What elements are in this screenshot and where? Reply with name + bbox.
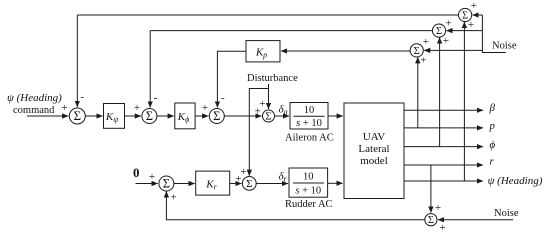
wire: Kpsi to S2 bbox=[125, 115, 141, 117]
svg-text:s + 10: s + 10 bbox=[295, 186, 321, 197]
wire: noise into N3 bbox=[424, 49, 482, 51]
svg-text:+: + bbox=[259, 98, 265, 110]
wire: Kp output drop into S3 top bbox=[217, 51, 246, 107]
svg-text:+: + bbox=[471, 0, 477, 12]
wire: Kphi to S3 bbox=[195, 115, 208, 117]
svg-text:UAV: UAV bbox=[363, 131, 385, 143]
svg-text:+: + bbox=[61, 102, 67, 114]
summing junction N3 (p noise) bbox=[410, 44, 423, 57]
wire: S2 to Kphi bbox=[157, 115, 174, 117]
wire: noise source stub top bbox=[482, 15, 506, 53]
wire: r feedback rise into S5 bottom bbox=[165, 191, 167, 219]
summing junction S4 (aileron disturbance) bbox=[263, 110, 275, 123]
wire: phi feedback drop into S2 top bbox=[149, 31, 151, 108]
svg-text:+: + bbox=[149, 171, 155, 183]
svg-text:+: + bbox=[420, 55, 426, 67]
svg-text:r: r bbox=[490, 156, 495, 168]
svg-text:Σ: Σ bbox=[265, 111, 271, 123]
svg-text:-: - bbox=[154, 92, 158, 104]
summing junction S1 bbox=[69, 108, 85, 124]
summing junction S6 (rudder disturbance) bbox=[242, 177, 256, 191]
summing junction N1 (psi noise) bbox=[459, 8, 472, 21]
wire: noise into N2 bbox=[446, 30, 482, 32]
svg-text:Noise: Noise bbox=[492, 41, 517, 52]
wire: phi output bbox=[404, 146, 483, 148]
wire: N3 output into Kp bbox=[281, 50, 410, 52]
wire: aileron actuator to UAV block bbox=[328, 115, 343, 117]
svg-text:Aileron AC: Aileron AC bbox=[285, 133, 334, 144]
svg-text:p: p bbox=[489, 120, 496, 132]
wire: S6 to rudder actuator bbox=[256, 183, 288, 185]
summing junction N4 (r noise) bbox=[425, 214, 437, 227]
svg-text:Σ: Σ bbox=[462, 11, 468, 22]
svg-text:Σ: Σ bbox=[414, 46, 420, 57]
block Kphi bbox=[175, 103, 195, 129]
wire: command input into S1 bbox=[27, 115, 68, 117]
svg-text:+: + bbox=[423, 36, 429, 48]
svg-text:Rudder AC: Rudder AC bbox=[285, 199, 333, 210]
svg-text:Disturbance: Disturbance bbox=[247, 73, 298, 84]
svg-text:ψ (Heading): ψ (Heading) bbox=[488, 175, 543, 187]
svg-text:0: 0 bbox=[133, 165, 140, 180]
svg-text:+: + bbox=[202, 102, 208, 114]
wire: r tap down to N4 bbox=[430, 165, 432, 213]
wire: S1 to Kpsi bbox=[85, 115, 102, 117]
wire: disturbance branch to rudder S6 bbox=[249, 89, 268, 176]
wire: p tap rising to N3 bbox=[417, 57, 419, 128]
wire: psi tap rising to N1 bbox=[463, 22, 465, 181]
summing junction S2 bbox=[142, 109, 157, 124]
block Kpsi bbox=[104, 104, 125, 129]
svg-text:-: - bbox=[80, 91, 84, 103]
wire: noise into N1 bbox=[473, 14, 483, 16]
summing junction N2 (phi noise) bbox=[432, 24, 445, 37]
svg-text:Σ: Σ bbox=[428, 215, 434, 226]
svg-text:Σ: Σ bbox=[246, 178, 252, 190]
wire: r output bbox=[404, 164, 483, 166]
svg-text:Σ: Σ bbox=[436, 26, 442, 37]
svg-text:10: 10 bbox=[303, 172, 314, 183]
wire: zero input into S5 bbox=[136, 183, 158, 185]
wire: N4 output back to S5 bbox=[166, 218, 424, 221]
wire: psi output bbox=[404, 180, 483, 182]
wire: S5 to Kr bbox=[174, 183, 195, 185]
svg-text:+: + bbox=[445, 18, 451, 30]
svg-text:ϕ: ϕ bbox=[490, 139, 496, 151]
wire: N2 output to phi feedback row bbox=[150, 30, 432, 32]
wire: beta output bbox=[404, 109, 483, 111]
svg-text:-: - bbox=[221, 92, 225, 104]
svg-text:+: + bbox=[443, 35, 449, 47]
node: psi heading command label bbox=[7, 92, 62, 116]
block UAV Lateral model bbox=[344, 103, 404, 199]
svg-text:+: + bbox=[435, 202, 441, 214]
wire: psi feedback drop into S1 top bbox=[76, 15, 78, 107]
block rudder actuator 10/(s+10) bbox=[289, 168, 328, 197]
svg-text:+: + bbox=[240, 166, 246, 178]
svg-text:Σ: Σ bbox=[74, 108, 82, 123]
wire: Kr to S6 bbox=[230, 183, 242, 185]
wire: S4 to aileron actuator bbox=[275, 115, 290, 117]
block Kp bbox=[246, 41, 280, 62]
wire: noise source into N4 bbox=[438, 219, 513, 221]
svg-text:β: β bbox=[489, 102, 496, 114]
svg-text:+: + bbox=[439, 222, 445, 234]
wire: rudder actuator to UAV block bbox=[328, 182, 343, 184]
wire: S3 to S4 bbox=[224, 115, 261, 117]
svg-text:model: model bbox=[360, 155, 388, 167]
svg-text:ψ (Heading): ψ (Heading) bbox=[7, 92, 62, 104]
block aileron actuator 10/(s+10) bbox=[290, 103, 328, 130]
summing junction S5 (rudder loop) bbox=[159, 176, 174, 191]
block Kr bbox=[196, 171, 230, 195]
svg-text:Σ: Σ bbox=[163, 177, 170, 191]
svg-text:command: command bbox=[13, 105, 55, 116]
svg-text:Σ: Σ bbox=[146, 109, 153, 123]
wire: p output bbox=[404, 127, 483, 129]
summing junction S3 bbox=[209, 109, 224, 124]
wire: N1 output to psi feedback row bbox=[77, 14, 458, 16]
svg-text:s + 10: s + 10 bbox=[296, 118, 322, 129]
wire: phi tap rising to N2 bbox=[439, 37, 441, 146]
svg-text:Noise: Noise bbox=[494, 208, 519, 219]
svg-text:10: 10 bbox=[304, 105, 315, 116]
svg-text:+: + bbox=[170, 192, 176, 204]
svg-text:Lateral: Lateral bbox=[358, 143, 389, 155]
svg-text:Σ: Σ bbox=[213, 109, 220, 123]
svg-text:+: + bbox=[134, 102, 140, 114]
wire: disturbance drop into S4 top bbox=[268, 84, 270, 109]
